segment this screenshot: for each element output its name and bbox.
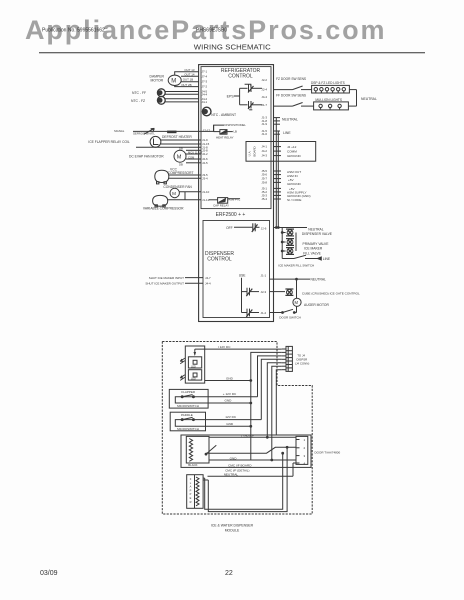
svg-text:MODULE: MODULE	[225, 528, 240, 532]
svg-text:NEUTRAL: NEUTRAL	[361, 97, 377, 101]
svg-text:J4-4: J4-4	[261, 95, 267, 99]
svg-text:PRIMARY VALVE: PRIMARY VALVE	[303, 242, 330, 246]
svg-text:DC EVAP FAN MOTOR: DC EVAP FAN MOTOR	[129, 155, 164, 159]
svg-text:F: F	[190, 477, 192, 481]
chute door board box	[181, 435, 311, 468]
svg-text:2: 2	[304, 446, 306, 450]
svg-text:J2-4: J2-4	[261, 88, 267, 92]
chute board connector	[296, 436, 340, 465]
J4 connector	[282, 346, 310, 371]
ice gate solenoid	[270, 289, 361, 296]
svg-text:(J4 CONN): (J4 CONN)	[295, 362, 309, 366]
svg-text:OUT 14: OUT 14	[184, 73, 194, 77]
damper motor M1	[150, 75, 182, 86]
paddle gnd wire	[206, 422, 251, 426]
svg-text:FLAPPER: FLAPPER	[181, 390, 196, 394]
ice maker fill switch SW3	[278, 255, 331, 267]
wire damper out1b	[181, 78, 199, 82]
dispenser neutral wire	[270, 277, 327, 298]
svg-text:NTC - AMBIENT: NTC - AMBIENT	[211, 113, 236, 117]
pin labels J1/J2 left column	[202, 138, 210, 202]
EPS sensor bottom element	[248, 101, 262, 110]
svg-text:J4-4: J4-4	[205, 282, 211, 286]
svg-text:ERF2500 + +: ERF2500 + +	[216, 212, 246, 218]
defrost bi-metal wire	[114, 128, 210, 135]
thermistor NTC-AMBIENT	[202, 107, 236, 117]
solenoid return wires	[203, 446, 288, 511]
svg-text:J7-4: J7-4	[202, 74, 208, 78]
header rule	[39, 52, 425, 54]
variable compressor	[143, 195, 201, 210]
svg-text:P: P	[190, 492, 192, 496]
svg-text:FF DOOR SW SENS: FF DOOR SW SENS	[276, 94, 306, 98]
svg-text:J2-3: J2-3	[261, 290, 267, 294]
svg-text:EPS: EPS	[227, 95, 235, 99]
svg-text:J2-5: J2-5	[202, 161, 208, 165]
svg-text:VARIABLE COMPRESSOR: VARIABLE COMPRESSOR	[143, 206, 184, 210]
FF door switch SW2	[274, 94, 314, 107]
pin labels right column refrigerator control	[261, 78, 267, 201]
svg-text:MULLION LIGHTS: MULLION LIGHTS	[315, 98, 342, 102]
primary valve V2	[286, 239, 329, 251]
svg-text:LINE: LINE	[283, 131, 291, 135]
svg-text:22: 22	[225, 570, 233, 577]
ice water dispenser module enclosure	[162, 342, 312, 515]
svg-text:J7-3: J7-3	[202, 80, 208, 84]
svg-text:J1-12: J1-12	[202, 198, 210, 202]
svg-text:A: A	[190, 485, 192, 489]
svg-text:LED: LED	[191, 366, 196, 369]
svg-text:J1-9: J1-9	[261, 122, 267, 126]
svg-text:L: L	[190, 481, 192, 485]
svg-text:SI / CODE: SI / CODE	[287, 198, 301, 202]
svg-text:J4-3: J4-3	[261, 154, 267, 158]
auger motor M4	[293, 298, 330, 312]
svg-text:J3-4: J3-4	[202, 176, 208, 180]
svg-text:J1-1: J1-1	[261, 274, 267, 278]
svg-text:SHUT ICE MAKER OUTPUT: SHUT ICE MAKER OUTPUT	[145, 282, 184, 286]
svg-text:Publication No. 5995561662: Publication No. 5995561662	[42, 28, 105, 34]
svg-text:M: M	[171, 79, 176, 85]
svg-text:HEAT RELAY: HEAT RELAY	[216, 136, 234, 140]
svg-text:LED: LED	[191, 378, 196, 381]
neutral pin stubs	[274, 118, 298, 125]
ERF2500 outer enclosure	[199, 65, 274, 322]
fill valve V3	[286, 248, 322, 256]
EPS sensor top element	[245, 84, 262, 92]
svg-text:U.A.: U.A.	[248, 150, 252, 156]
svg-text:CAP RELAY: CAP RELAY	[213, 203, 229, 207]
svg-text:DISPENSER VALVE: DISPENSER VALVE	[302, 232, 333, 236]
svg-text:CONTROL: CONTROL	[207, 257, 232, 263]
line trunk wire	[277, 131, 279, 228]
cap relay inside box	[209, 198, 240, 208]
svg-text:R: R	[190, 500, 192, 504]
svg-text:ICE MAKER: ICE MAKER	[304, 247, 323, 251]
valve left bus	[281, 228, 285, 259]
flapper gnd wire	[208, 398, 251, 403]
DC evap fan motor M2	[129, 147, 203, 167]
svg-text:SHUT ICE MAKER INPUT: SHUT ICE MAKER INPUT	[149, 276, 184, 280]
svg-text:J1-2: J1-2	[261, 311, 267, 315]
UA board box	[246, 142, 316, 162]
svg-text:J2-2: J2-2	[261, 78, 267, 82]
svg-text:I 12V DC: I 12V DC	[241, 435, 254, 439]
svg-text:M: M	[295, 300, 299, 305]
svg-text:MICROSWITCH: MICROSWITCH	[177, 404, 199, 408]
svg-text:+ 12V DC: + 12V DC	[223, 392, 237, 396]
svg-text:NEUTRAL: NEUTRAL	[282, 118, 298, 122]
svg-text:BLACK: BLACK	[188, 463, 197, 467]
svg-text:J5-4: J5-4	[261, 197, 267, 201]
svg-text:J4-7: J4-7	[205, 276, 211, 280]
svg-text:DISPOSITIONEL: DISPOSITIONEL	[224, 123, 246, 127]
paddle 12V wire	[206, 415, 262, 419]
svg-text:GROUND: GROUND	[287, 154, 302, 158]
VCC compressor	[155, 168, 201, 184]
svg-text:CONDENSER FAN: CONDENSER FAN	[163, 185, 192, 189]
svg-text:FILL VALVE: FILL VALVE	[303, 251, 321, 255]
svg-text:I 12V DC: I 12V DC	[218, 345, 231, 349]
svg-text:ICE MAKER FILL SWITCH: ICE MAKER FILL SWITCH	[278, 264, 314, 268]
connector fan-out verticals	[250, 352, 282, 461]
condenser fan M3	[163, 185, 201, 200]
svg-text:CMC I/F BOARD: CMC I/F BOARD	[228, 464, 252, 468]
EPS sensor bracket	[227, 88, 248, 105]
svg-text:AUGER MOTOR: AUGER MOTOR	[304, 303, 329, 307]
svg-text:E: E	[190, 496, 192, 500]
supply signal stubs	[274, 187, 311, 202]
lights neutral return wire	[348, 90, 377, 107]
svg-text:J5-8: J5-8	[261, 180, 267, 184]
svg-text:J4-1: J4-1	[202, 100, 208, 104]
wire damper out13	[175, 68, 199, 75]
DSP and FZ LED lights	[311, 81, 349, 93]
svg-text:DEFROST HEATER: DEFROST HEATER	[162, 135, 192, 139]
line pin stubs	[274, 131, 292, 135]
valve feed wire	[274, 227, 324, 232]
heat relay inside box	[201, 123, 246, 140]
neutral trunk wire	[275, 118, 277, 228]
svg-text:ICE FLAPPER RELAY COIL: ICE FLAPPER RELAY COIL	[88, 140, 130, 144]
pin labels J7 column	[202, 70, 208, 104]
svg-text:FZ DOOR SW SENS: FZ DOOR SW SENS	[276, 77, 306, 81]
svg-text:WIRING SCHEMATIC: WIRING SCHEMATIC	[194, 42, 271, 51]
svg-text:MOTOR: MOTOR	[151, 79, 164, 83]
svg-text:NEUTRAL: NEUTRAL	[224, 473, 239, 477]
thermistor NTC-FZ	[131, 96, 199, 104]
svg-text:J4-2: J4-2	[261, 149, 267, 153]
svg-text:M: M	[177, 154, 182, 160]
svg-text:CUBE (CRUSHED) ICE GATE CONTRO: CUBE (CRUSHED) ICE GATE CONTROL	[302, 292, 360, 296]
svg-text:BOARD: BOARD	[253, 146, 257, 156]
svg-text:MICROSWITCH: MICROSWITCH	[177, 427, 199, 431]
dispenser door switch SW4	[270, 309, 301, 319]
svg-text:PADDLE: PADDLE	[181, 413, 193, 417]
paddle microswitch	[170, 412, 205, 431]
wire damper out2b	[175, 83, 199, 87]
svg-text:J4 +12: J4 +12	[287, 145, 297, 149]
svg-text:GND: GND	[225, 398, 233, 402]
svg-text:NEUTRAL: NEUTRAL	[308, 228, 324, 232]
svg-text:ASM PTC: ASM PTC	[228, 198, 240, 202]
svg-text:GND: GND	[230, 456, 238, 460]
svg-text:M: M	[172, 191, 176, 196]
svg-text:OFF: OFF	[226, 226, 233, 230]
svg-text:DSP & FZ LED LIGHTS: DSP & FZ LED LIGHTS	[311, 81, 345, 85]
refrigerator control box U1	[201, 67, 271, 209]
svg-text:COM: COM	[188, 155, 195, 159]
IR emitter assembly	[180, 346, 205, 383]
svg-text:NTC - FZ: NTC - FZ	[131, 99, 145, 103]
svg-text:MCU 11 1/2: MCU 11 1/2	[188, 150, 203, 154]
svg-text:OUT 13: OUT 13	[184, 68, 194, 72]
thermistor NTC-FF	[132, 89, 199, 97]
svg-text:DOOR T/AA/74800: DOOR T/AA/74800	[315, 450, 341, 454]
dispenser OFF driver	[226, 223, 267, 232]
svg-text:GND: GND	[226, 422, 234, 426]
svg-text:J2-2: J2-2	[202, 152, 208, 156]
svg-text:J1-10: J1-10	[202, 190, 210, 194]
svg-text:GND: GND	[226, 376, 234, 380]
neutral wire below chute box	[208, 463, 297, 477]
svg-text:SIGNAL: SIGNAL	[114, 129, 125, 133]
svg-text:GROUND: GROUND	[287, 182, 302, 186]
wire damper out14	[181, 73, 199, 77]
dispenser USE drivers	[239, 274, 267, 317]
svg-text:LINE: LINE	[323, 257, 331, 261]
svg-text:PHS69EJSB0: PHS69EJSB0	[196, 28, 227, 34]
svg-text:NEUTRAL: NEUTRAL	[311, 277, 327, 281]
mullion lights	[314, 98, 349, 110]
ground wire from IR	[205, 376, 251, 380]
svg-text:P: P	[190, 488, 192, 492]
svg-text:DOOR SWITCH: DOOR SWITCH	[279, 315, 301, 319]
flapper microswitch	[169, 389, 208, 408]
dispenser valve V1	[286, 229, 333, 236]
shut ice maker input wire	[149, 276, 211, 280]
asm signal stubs	[274, 170, 302, 186]
svg-text:J7-2: J7-2	[202, 85, 208, 89]
svg-text:DB: DB	[179, 147, 183, 151]
svg-text:CONTROL: CONTROL	[228, 73, 253, 79]
svg-text:NTC - FF: NTC - FF	[132, 91, 146, 95]
12VDC supply wire to connector	[195, 345, 282, 349]
svg-text:1: 1	[304, 438, 306, 442]
ice flapper relay coil wire	[88, 140, 201, 148]
svg-text:J2-6: J2-6	[261, 226, 267, 230]
defrost heater R1	[150, 135, 201, 147]
watermark	[25, 15, 386, 46]
svg-text:DB: DB	[179, 163, 183, 167]
svg-text:USE: USE	[239, 274, 247, 278]
svg-text:12V DC: 12V DC	[225, 415, 237, 419]
svg-text:J1-6: J1-6	[261, 132, 267, 136]
svg-text:J7-1: J7-1	[202, 70, 208, 74]
dispenser control box U2	[203, 221, 270, 318]
svg-text:3: 3	[304, 454, 306, 458]
valve right bus	[295, 233, 297, 252]
shut ice maker output wire	[145, 282, 211, 286]
flapper solenoid	[187, 475, 203, 509]
svg-text:J7-17: J7-17	[203, 129, 211, 133]
FZ door switch SW1	[274, 77, 312, 90]
flapper 12V wire	[208, 392, 257, 397]
svg-text:LB: LB	[234, 130, 238, 134]
svg-text:03/09: 03/09	[40, 570, 58, 577]
svg-text:OUT 2B: OUT 2B	[181, 83, 191, 87]
svg-text:COMM: COMM	[287, 150, 297, 154]
svg-text:J1-7: J1-7	[261, 103, 267, 107]
svg-text:ICE & WATER DISPENSER: ICE & WATER DISPENSER	[211, 524, 254, 528]
svg-text:J4-1: J4-1	[261, 145, 267, 149]
svg-text:OUT 1B: OUT 1B	[183, 78, 193, 82]
